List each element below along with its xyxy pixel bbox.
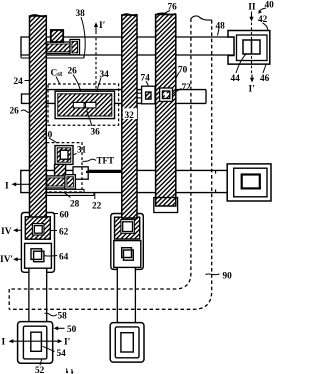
svg-text:44: 44 — [231, 74, 241, 84]
svg-text:I′: I′ — [249, 85, 256, 95]
svg-text:36: 36 — [91, 128, 101, 138]
data pad 2 white ring — [121, 220, 134, 234]
wire drain outline step — [45, 189, 84, 192]
svg-text:72: 72 — [182, 83, 192, 93]
data line 76 foot — [154, 198, 178, 213]
wire storage common line right closure — [205, 90, 207, 104]
data line 76 (right vertical bar) — [156, 15, 176, 207]
gate pad 44 contact double square — [243, 40, 260, 54]
svg-text:I: I — [5, 182, 9, 192]
svg-text:IV: IV — [1, 227, 12, 237]
wire storage common line top edge — [30, 89, 207, 91]
svg-text:62: 62 — [59, 228, 69, 238]
bottom pad 50 outer (left) — [18, 322, 53, 364]
svg-text:22: 22 — [92, 202, 102, 212]
data pad 2 contact hole — [123, 222, 133, 232]
section line II-II' dashes through gate pad — [251, 23, 253, 74]
wire TFT source to data line 2 — [86, 171, 122, 173]
svg-text:64: 64 — [59, 253, 69, 263]
gate electrode arm 28 outline — [45, 176, 71, 188]
svg-text:26: 26 — [10, 107, 20, 117]
svg-text:50: 50 — [67, 325, 77, 335]
contact square 38 — [51, 30, 63, 42]
active layer 30 dashed boundary (TFT) — [47, 143, 82, 192]
gate pad 2 outline (right, row 2) — [227, 164, 271, 201]
section line I-I' vertical dashes — [95, 38, 97, 90]
wire storage common line bottom edge — [22, 102, 207, 104]
data pad 2 hatched block — [115, 217, 140, 239]
data pad hatched block — [25, 217, 50, 239]
wire gate electrode bottom edge — [45, 194, 94, 196]
data pad 2 legs — [116, 269, 118, 322]
svg-text:32: 32 — [125, 111, 135, 121]
gate electrode arm 28 hatch — [47, 178, 69, 186]
wire gate line 1 bottom edge — [21, 54, 234, 56]
svg-text:90: 90 — [223, 272, 233, 282]
wire storage common line left stub — [22, 94, 30, 104]
gate pad 2 contact — [242, 175, 260, 189]
previous row gate arm outline (top) — [45, 42, 75, 54]
wire gate line 1 left stub closure — [20, 36, 22, 55]
contact structure 72 — [160, 88, 173, 101]
svg-text:TFT: TFT — [97, 156, 115, 166]
gate pad 2 inner — [234, 168, 267, 197]
svg-text:38: 38 — [76, 9, 86, 19]
transistor TFT drain white center — [60, 150, 68, 159]
gate pad 42 inner — [237, 35, 268, 61]
data line 76 wavy top — [155, 13, 176, 15]
capacitor Cst electrode outer plate — [55, 91, 114, 118]
contact hole 64 double square — [31, 249, 42, 260]
label I' bottom of gate pad with arrow — [251, 75, 253, 80]
previous row gate arm hatch — [47, 44, 73, 52]
contact hole 62 — [34, 226, 42, 234]
svg-text:48: 48 — [216, 22, 226, 32]
label 32 background on bar — [123, 108, 137, 119]
capacitor contact slit 36 right — [86, 102, 96, 108]
data pad 2 contact hole double square — [122, 248, 132, 258]
capacitor Cst electrode hatched plate 26 — [58, 94, 112, 116]
wire gate line 2 bottom edge — [21, 192, 227, 194]
svg-text:74: 74 — [141, 74, 151, 84]
data pad legs — [28, 272, 30, 322]
pixel boundary left closure — [8, 289, 10, 309]
capacitor contact slit 36 left — [73, 102, 84, 108]
svg-text:54: 54 — [57, 349, 67, 359]
wire gate line 1 top edge — [21, 36, 234, 38]
bottom pad inner (center) — [115, 327, 139, 358]
data pad 2 outline (center) — [111, 214, 144, 270]
data line 24 (left vertical bar) — [30, 16, 47, 217]
section line I-I' horizontal through bottom pad — [10, 340, 61, 342]
transistor TFT source tab — [73, 167, 88, 179]
svg-text:24: 24 — [14, 77, 24, 87]
gate electrode arm end block hatch — [67, 177, 74, 187]
svg-text:60: 60 — [60, 211, 70, 221]
data line 32 (middle vertical bar) — [122, 15, 137, 218]
gate pad 40 outline (top right) — [228, 31, 270, 65]
data line 24 wavy top — [29, 15, 46, 17]
wire gate line 2 narrowing ticks near pad — [215, 170, 217, 173]
svg-text:46: 46 — [260, 74, 270, 84]
bottom pad outer (center) — [110, 323, 144, 363]
svg-text:I: I — [2, 338, 6, 348]
wire gate line 2 top edge (22) — [21, 169, 227, 171]
bottom pad contact (center) — [121, 333, 133, 352]
svg-text:II: II — [248, 3, 256, 13]
svg-text:31: 31 — [77, 146, 87, 156]
pixel boundary 90 outer dashed line — [9, 20, 212, 309]
transistor TFT drain hatched ring — [57, 148, 71, 162]
pixel boundary 90 inner dashed line — [9, 19, 191, 290]
transistor TFT hatched connector strip — [55, 164, 66, 177]
contact structure 74 — [137, 92, 142, 94]
wire gate line 2 left stub closure — [20, 170, 22, 193]
data pad white ring — [32, 224, 44, 235]
svg-text:28: 28 — [70, 199, 80, 209]
data pad 60 outline (mid-left) — [21, 213, 54, 273]
previous row arm end block hatch — [72, 41, 78, 53]
bottom pad 52 inner — [23, 326, 46, 359]
transistor TFT drain contact square outline 31 — [55, 146, 73, 165]
active layer 30 dashed boundary (Cst) — [48, 84, 119, 125]
bottom pad 54 contact — [31, 332, 42, 351]
gate electrode arm end block outline — [65, 175, 76, 189]
svg-text:26: 26 — [68, 67, 78, 77]
data pad 2 lower plate — [114, 241, 141, 268]
previous row arm end block outline — [70, 40, 80, 55]
svg-text:40: 40 — [265, 1, 275, 11]
wire gate electrode row1 bottom edge — [21, 57, 84, 59]
svg-text:IV′: IV′ — [0, 255, 14, 265]
svg-text:70: 70 — [178, 66, 188, 76]
svg-text:58: 58 — [58, 312, 68, 322]
data line 32 wavy top — [122, 14, 138, 15]
svg-text:I′: I′ — [99, 21, 106, 31]
data pad lower plate — [25, 243, 52, 268]
svg-text:I′: I′ — [64, 338, 71, 348]
small marks below pad 52 — [66, 371, 68, 373]
svg-text:52: 52 — [35, 366, 45, 374]
pixel boundary top connector — [191, 16, 212, 20]
